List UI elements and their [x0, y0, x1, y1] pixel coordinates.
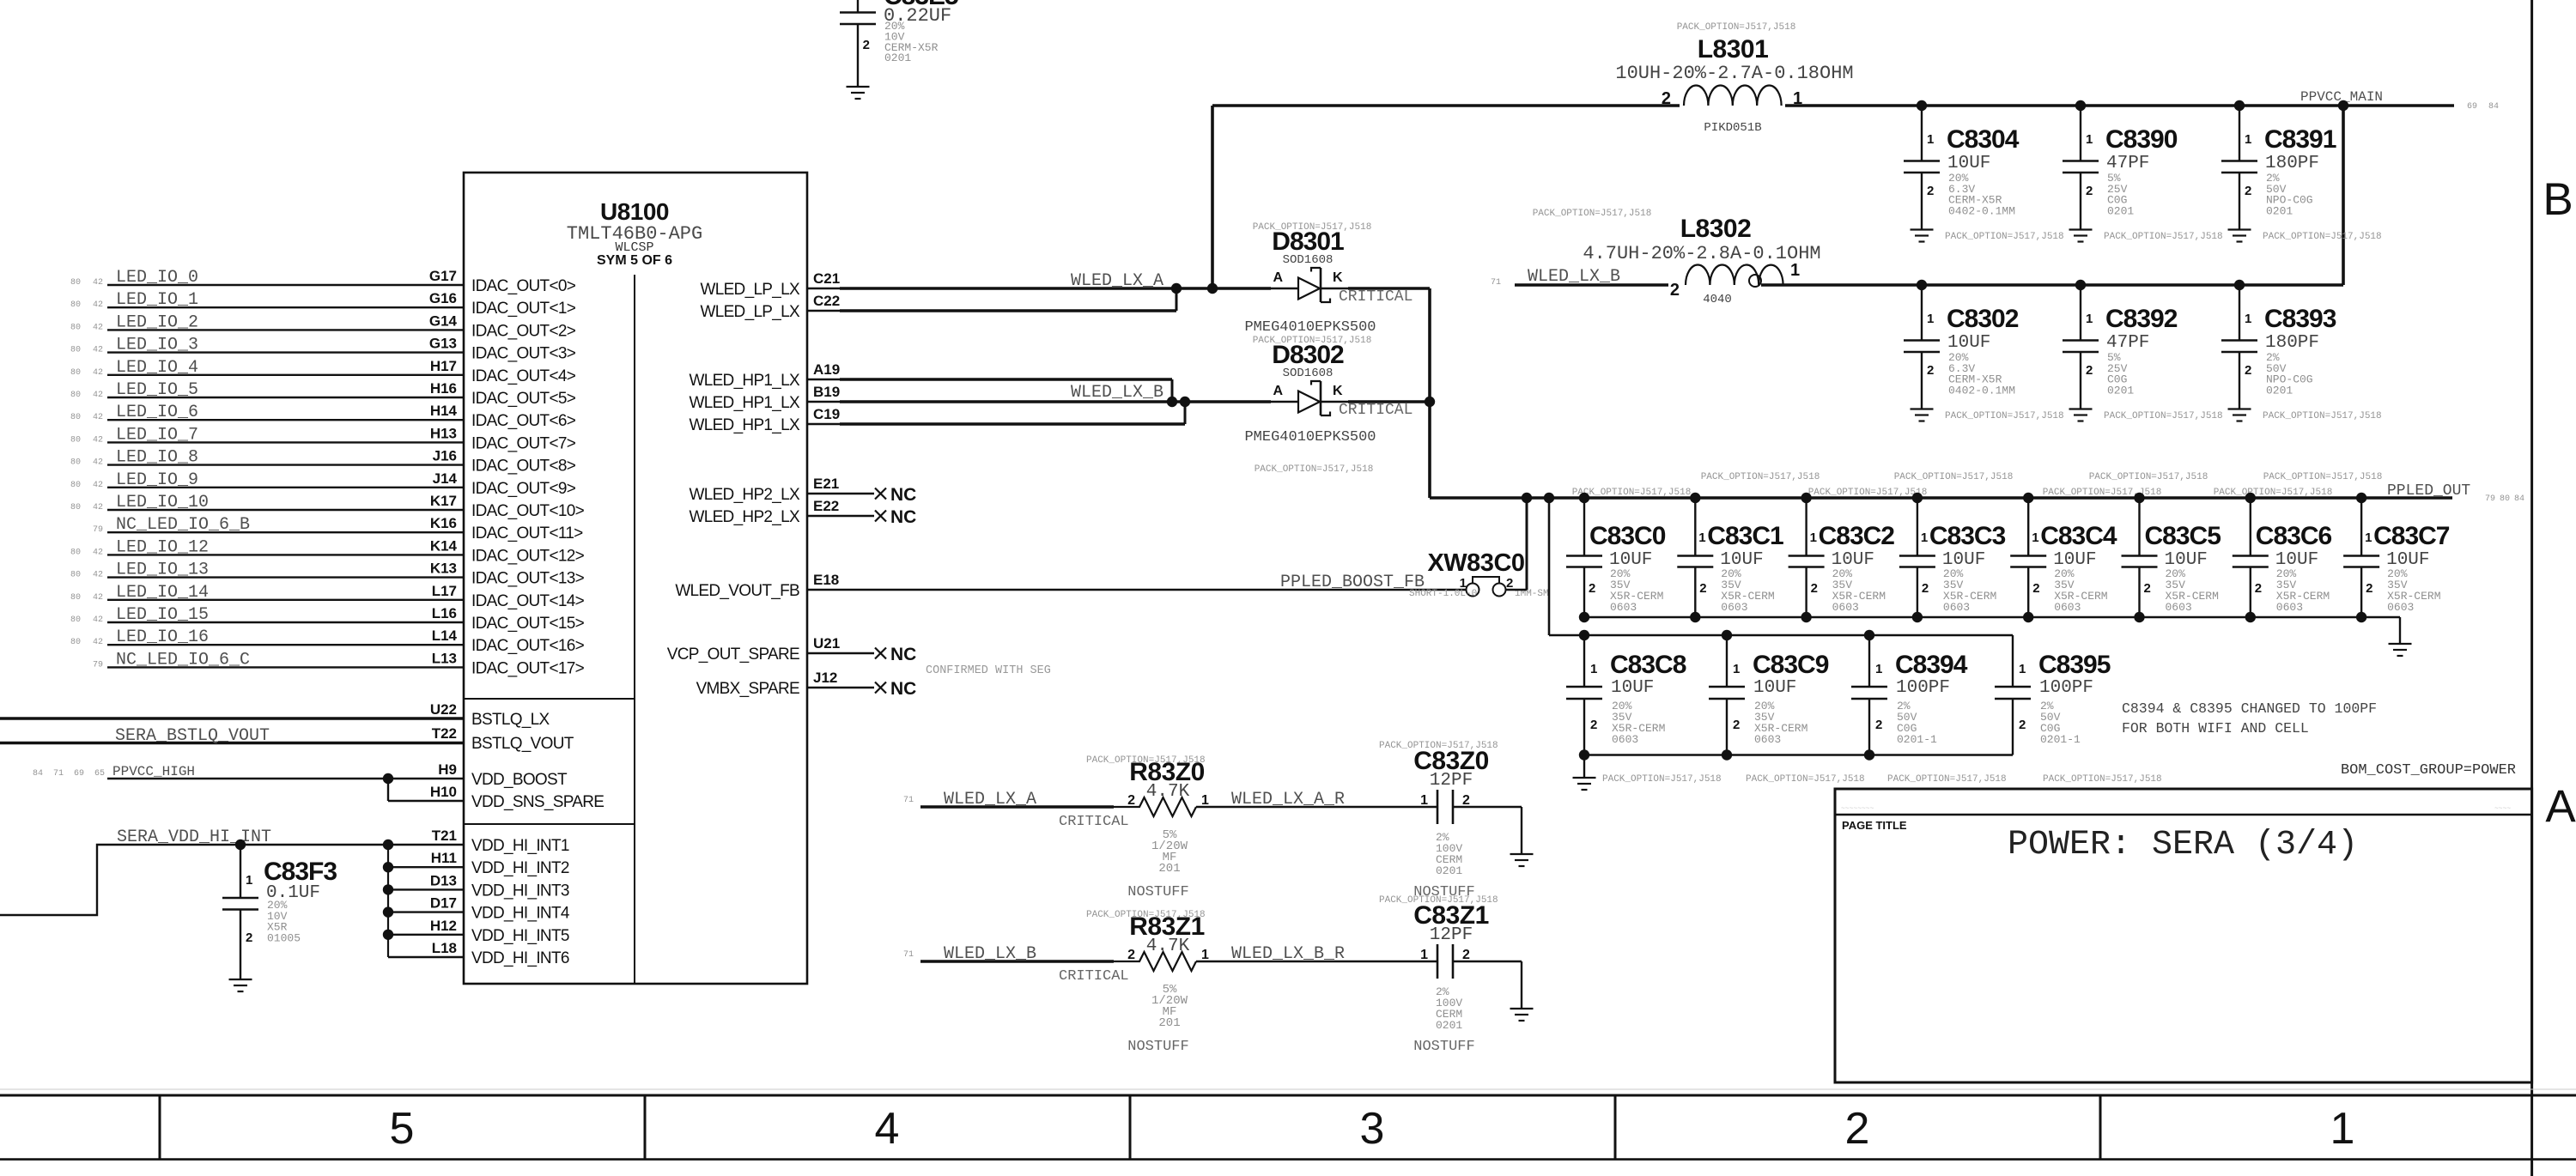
svg-text:C83C5: C83C5 [2145, 522, 2221, 550]
svg-text:IDAC_OUT<3>: IDAC_OUT<3> [471, 345, 576, 363]
svg-text:IDAC_OUT<6>: IDAC_OUT<6> [471, 412, 576, 430]
svg-text:LED_IO_5: LED_IO_5 [116, 380, 198, 400]
svg-text:0603: 0603 [1610, 601, 1637, 614]
svg-text:A: A [1273, 270, 1283, 285]
svg-text:NC: NC [890, 507, 916, 527]
svg-text:J12: J12 [813, 670, 837, 686]
svg-text:PACK_OPTION=J517,J518: PACK_OPTION=J517,J518 [1945, 411, 2064, 421]
svg-text:U22: U22 [430, 701, 457, 718]
svg-text:LED_IO_16: LED_IO_16 [116, 627, 209, 647]
svg-text:1: 1 [1201, 948, 1209, 962]
svg-text:IDAC_OUT<7>: IDAC_OUT<7> [471, 434, 576, 452]
svg-text:SOD1608: SOD1608 [1283, 367, 1334, 380]
svg-text:LED_IO_9: LED_IO_9 [116, 470, 198, 490]
svg-text:79: 79 [93, 525, 103, 535]
svg-text:PACK_OPTION=J517,J518: PACK_OPTION=J517,J518 [1255, 464, 1374, 475]
svg-text:80: 80 [70, 503, 81, 512]
svg-text:80: 80 [70, 481, 81, 490]
svg-text:2: 2 [1927, 184, 1934, 198]
svg-text:G14: G14 [429, 312, 458, 329]
svg-text:PACK_OPTION=J517,J518: PACK_OPTION=J517,J518 [2263, 472, 2383, 482]
svg-text:LED_IO_4: LED_IO_4 [116, 358, 198, 378]
svg-text:NC: NC [890, 645, 916, 664]
svg-text:2: 2 [1590, 718, 1597, 732]
svg-text:PACK_OPTION=J517,J518: PACK_OPTION=J517,J518 [1746, 774, 1865, 785]
svg-text:0201: 0201 [884, 52, 911, 64]
svg-text:CRITICAL: CRITICAL [1339, 402, 1413, 419]
svg-text:WLED_LX_A_R: WLED_LX_A_R [1231, 790, 1345, 809]
svg-text:2: 2 [246, 930, 252, 945]
svg-text:C8394: C8394 [1895, 651, 1968, 679]
svg-text:42: 42 [93, 413, 103, 422]
svg-text:BSTLQ_LX: BSTLQ_LX [471, 711, 550, 729]
svg-text:12PF: 12PF [1430, 771, 1473, 791]
svg-text:POWER: SERA (3/4): POWER: SERA (3/4) [2008, 826, 2358, 864]
svg-text:WLED_LX_B_R: WLED_LX_B_R [1231, 944, 1345, 964]
svg-text:10UH-20%-2.7A-0.18OHM: 10UH-20%-2.7A-0.18OHM [1615, 63, 1853, 84]
svg-text:0201-1: 0201-1 [1897, 733, 1937, 746]
svg-text:IDAC_OUT<13>: IDAC_OUT<13> [471, 570, 585, 588]
svg-text:IDAC_OUT<0>: IDAC_OUT<0> [471, 277, 576, 295]
svg-text:0603: 0603 [2166, 601, 2192, 614]
svg-text:U8100: U8100 [600, 198, 669, 225]
svg-text:C8394 & C8395 CHANGED TO 100PF: C8394 & C8395 CHANGED TO 100PF [2122, 700, 2377, 717]
svg-text:E22: E22 [813, 498, 839, 514]
svg-text:PACK_OPTION=J517,J518: PACK_OPTION=J517,J518 [2089, 472, 2208, 482]
svg-text:G17: G17 [429, 268, 457, 284]
svg-text:1: 1 [1733, 662, 1740, 676]
svg-text:VDD_SNS_SPARE: VDD_SNS_SPARE [471, 793, 604, 811]
svg-text:D13: D13 [430, 872, 457, 888]
svg-text:1: 1 [1698, 530, 1705, 545]
svg-text:42: 42 [93, 481, 103, 490]
svg-text:C8392: C8392 [2105, 305, 2178, 333]
svg-text:LED_IO_12: LED_IO_12 [116, 537, 209, 557]
svg-text:10UF: 10UF [1753, 678, 1796, 698]
svg-text:80: 80 [2500, 494, 2510, 504]
svg-text:2: 2 [2144, 581, 2151, 596]
svg-text:42: 42 [93, 323, 103, 332]
svg-text:0603: 0603 [2387, 601, 2414, 614]
svg-text:H13: H13 [430, 425, 457, 441]
svg-text:0201: 0201 [2266, 204, 2293, 217]
svg-text:H10: H10 [430, 784, 457, 800]
svg-text:L8302: L8302 [1680, 215, 1752, 243]
svg-text:VDD_HI_INT3: VDD_HI_INT3 [471, 882, 569, 900]
svg-text:180PF: 180PF [2265, 333, 2319, 353]
svg-text:80: 80 [70, 638, 81, 647]
svg-text:IDAC_OUT<17>: IDAC_OUT<17> [471, 659, 585, 677]
svg-text:2: 2 [1875, 718, 1882, 732]
svg-text:2: 2 [2086, 184, 2093, 198]
svg-text:LED_IO_14: LED_IO_14 [116, 583, 209, 603]
svg-text:0603: 0603 [1754, 733, 1781, 746]
svg-text:WLED_LX_B: WLED_LX_B [944, 944, 1036, 964]
svg-text:K14: K14 [430, 537, 458, 554]
svg-text:LED_IO_6: LED_IO_6 [116, 403, 198, 422]
svg-text:IDAC_OUT<11>: IDAC_OUT<11> [471, 524, 583, 543]
svg-text:H11: H11 [431, 850, 457, 866]
svg-text:79: 79 [2485, 494, 2495, 504]
svg-text:C19: C19 [813, 406, 840, 422]
svg-text:CONFIRMED WITH SEG: CONFIRMED WITH SEG [926, 664, 1051, 677]
svg-text:T21: T21 [432, 827, 457, 844]
svg-text:PACK_OPTION=J517,J518: PACK_OPTION=J517,J518 [2104, 232, 2223, 242]
svg-text:1: 1 [1790, 261, 1800, 280]
svg-text:VDD_HI_INT1: VDD_HI_INT1 [471, 837, 569, 855]
svg-text:PACK_OPTION=J517,J518: PACK_OPTION=J517,J518 [1894, 472, 2014, 482]
svg-text:LED_IO_7: LED_IO_7 [116, 425, 198, 445]
svg-text:42: 42 [93, 503, 103, 512]
svg-text:0402-0.1MM: 0402-0.1MM [1948, 384, 2015, 397]
svg-text:71: 71 [53, 769, 64, 779]
svg-text:C8393: C8393 [2264, 305, 2336, 333]
svg-text:47PF: 47PF [2106, 333, 2149, 353]
svg-text:PPLED_BOOST_FB: PPLED_BOOST_FB [1280, 573, 1425, 592]
svg-text:80: 80 [70, 593, 81, 603]
svg-text:K: K [1333, 270, 1343, 285]
svg-text:U21: U21 [813, 635, 840, 652]
svg-text:LED_IO_2: LED_IO_2 [116, 312, 198, 332]
svg-text:WLED_HP1_LX: WLED_HP1_LX [689, 416, 800, 434]
svg-text:42: 42 [93, 435, 103, 445]
svg-text:IDAC_OUT<16>: IDAC_OUT<16> [471, 637, 585, 655]
svg-text:1: 1 [1927, 312, 1934, 326]
svg-text:PPVCC_HIGH: PPVCC_HIGH [112, 764, 195, 779]
svg-text:WLED_LX_B: WLED_LX_B [1071, 383, 1163, 403]
svg-text:2: 2 [1699, 581, 1706, 596]
svg-text:2: 2 [1127, 793, 1135, 808]
svg-text:5: 5 [390, 1104, 415, 1154]
svg-text:E21: E21 [813, 476, 839, 492]
svg-text:L13: L13 [432, 650, 457, 666]
svg-text:T22: T22 [432, 725, 457, 742]
svg-text:PACK_OPTION=J517,J518: PACK_OPTION=J517,J518 [1677, 22, 1796, 33]
svg-text:1: 1 [2330, 1104, 2355, 1154]
svg-text:2: 2 [863, 38, 870, 52]
svg-text:L16: L16 [432, 605, 457, 621]
svg-text:71: 71 [1491, 278, 1501, 288]
svg-text:WLED_HP1_LX: WLED_HP1_LX [689, 372, 800, 390]
svg-text:80: 80 [70, 368, 81, 378]
svg-text:C8395: C8395 [2038, 651, 2111, 679]
svg-text:D8302: D8302 [1272, 341, 1344, 369]
svg-text:WLED_HP2_LX: WLED_HP2_LX [689, 486, 800, 504]
svg-text:42: 42 [93, 368, 103, 378]
svg-text:C21: C21 [813, 270, 840, 287]
svg-text:84: 84 [2488, 102, 2499, 112]
svg-text:0603: 0603 [2054, 601, 2081, 614]
svg-text:G13: G13 [429, 336, 457, 352]
svg-text:0402-0.1MM: 0402-0.1MM [1948, 204, 2015, 217]
svg-text:K17: K17 [430, 493, 457, 509]
svg-text:WLED_HP2_LX: WLED_HP2_LX [689, 508, 800, 526]
svg-text:79: 79 [93, 660, 103, 670]
svg-text:~~~~~~~~: ~~~~~~~~ [1841, 805, 1874, 813]
svg-text:100PF: 100PF [2039, 678, 2093, 698]
svg-text:C8390: C8390 [2105, 125, 2178, 154]
svg-text:PIKD051B: PIKD051B [1704, 121, 1761, 135]
svg-text:C83F3: C83F3 [264, 858, 337, 886]
svg-text:2: 2 [1506, 576, 1513, 591]
svg-text:4.7K: 4.7K [1146, 937, 1190, 956]
svg-text:C83C4: C83C4 [2040, 522, 2117, 550]
svg-text:PACK_OPTION=J517,J518: PACK_OPTION=J517,J518 [1533, 209, 1652, 219]
svg-text:PMEG4010EPKS500: PMEG4010EPKS500 [1244, 319, 1376, 336]
svg-text:C22: C22 [813, 293, 840, 309]
svg-text:47PF: 47PF [2106, 154, 2149, 173]
svg-text:B: B [2543, 174, 2573, 225]
svg-text:10UF: 10UF [1611, 678, 1654, 698]
svg-text:C83C2: C83C2 [1819, 522, 1895, 550]
svg-text:LED_IO_3: LED_IO_3 [116, 336, 198, 355]
svg-text:2: 2 [1462, 793, 1470, 808]
svg-text:H9: H9 [438, 761, 457, 778]
svg-text:PACK_OPTION=J517,J518: PACK_OPTION=J517,J518 [2214, 488, 2333, 498]
svg-text:0201: 0201 [2266, 384, 2293, 397]
svg-text:1: 1 [246, 873, 252, 888]
svg-text:E18: E18 [813, 572, 839, 588]
svg-text:B19: B19 [813, 384, 840, 400]
svg-text:SOD1608: SOD1608 [1283, 253, 1334, 267]
svg-text:J14: J14 [433, 470, 458, 487]
svg-text:80: 80 [70, 435, 81, 445]
svg-text:C83C7: C83C7 [2373, 522, 2450, 550]
svg-text:PACK_OPTION=J517,J518: PACK_OPTION=J517,J518 [2043, 774, 2162, 785]
svg-text:NOSTUFF: NOSTUFF [1127, 884, 1188, 900]
svg-text:WLED_LP_LX: WLED_LP_LX [700, 303, 800, 321]
svg-text:2: 2 [2019, 718, 2026, 732]
svg-text:0201: 0201 [1436, 864, 1462, 877]
svg-text:IDAC_OUT<8>: IDAC_OUT<8> [471, 458, 576, 476]
svg-text:2: 2 [2032, 581, 2039, 596]
svg-text:J16: J16 [433, 448, 457, 464]
svg-text:0603: 0603 [1943, 601, 1970, 614]
svg-text:80: 80 [70, 571, 81, 580]
svg-text:0603: 0603 [1721, 601, 1747, 614]
svg-text:C83C0: C83C0 [1589, 522, 1666, 550]
svg-text:2: 2 [2366, 581, 2372, 596]
svg-text:SHORT-1.0L-0: SHORT-1.0L-0 [1409, 589, 1477, 599]
svg-text:80: 80 [70, 458, 81, 468]
svg-text:L17: L17 [432, 583, 457, 599]
svg-text:IDAC_OUT<5>: IDAC_OUT<5> [471, 390, 576, 408]
svg-text:2: 2 [1670, 281, 1680, 300]
svg-text:0201: 0201 [1436, 1019, 1462, 1032]
svg-text:LED_IO_15: LED_IO_15 [116, 605, 209, 625]
svg-text:1: 1 [1420, 793, 1428, 808]
svg-text:IDAC_OUT<4>: IDAC_OUT<4> [471, 367, 576, 385]
svg-text:71: 71 [903, 950, 914, 960]
svg-text:1: 1 [2019, 662, 2026, 676]
svg-text:1: 1 [1793, 89, 1802, 108]
svg-text:VMBX_SPARE: VMBX_SPARE [696, 680, 799, 698]
svg-text:IDAC_OUT<14>: IDAC_OUT<14> [471, 592, 585, 610]
svg-text:~~~~: ~~~~ [2494, 805, 2511, 813]
svg-text:PACK_OPTION=J517,J518: PACK_OPTION=J517,J518 [1701, 472, 1820, 482]
svg-text:SERA_VDD_HI_INT: SERA_VDD_HI_INT [117, 827, 271, 847]
svg-text:80: 80 [70, 391, 81, 400]
svg-text:CRITICAL: CRITICAL [1339, 288, 1413, 306]
svg-text:2: 2 [1462, 948, 1470, 962]
svg-text:2: 2 [2245, 363, 2251, 378]
svg-text:3: 3 [1360, 1104, 1385, 1154]
svg-text:42: 42 [93, 458, 103, 468]
svg-text:10UF: 10UF [1947, 333, 1990, 353]
svg-text:2: 2 [1733, 718, 1740, 732]
svg-text:1: 1 [2086, 132, 2093, 147]
svg-text:2: 2 [1922, 581, 1929, 596]
svg-text:100PF: 100PF [1896, 678, 1950, 698]
svg-text:4.7K: 4.7K [1146, 782, 1190, 802]
svg-text:LED_IO_10: LED_IO_10 [116, 493, 209, 512]
svg-text:42: 42 [93, 346, 103, 355]
svg-text:80: 80 [70, 300, 81, 310]
svg-text:IDAC_OUT<12>: IDAC_OUT<12> [471, 547, 585, 565]
svg-text:NC_LED_IO_6_B: NC_LED_IO_6_B [116, 515, 250, 535]
svg-text:L18: L18 [432, 940, 457, 956]
svg-text:2: 2 [2086, 363, 2093, 378]
svg-text:1: 1 [1810, 530, 1817, 545]
svg-text:WLED_LX_A: WLED_LX_A [944, 790, 1036, 809]
svg-text:42: 42 [93, 593, 103, 603]
svg-text:LED_IO_13: LED_IO_13 [116, 561, 209, 580]
svg-text:80: 80 [70, 548, 81, 557]
svg-text:42: 42 [93, 278, 103, 288]
svg-text:IDAC_OUT<15>: IDAC_OUT<15> [471, 615, 585, 633]
svg-text:65: 65 [94, 769, 105, 779]
svg-text:SERA_BSTLQ_VOUT: SERA_BSTLQ_VOUT [115, 726, 270, 746]
svg-text:K: K [1333, 384, 1343, 398]
svg-text:VDD_HI_INT2: VDD_HI_INT2 [471, 859, 569, 877]
svg-text:2: 2 [1927, 363, 1934, 378]
svg-text:2: 2 [2245, 184, 2251, 198]
svg-text:0201: 0201 [2107, 204, 2134, 217]
svg-text:IDAC_OUT<1>: IDAC_OUT<1> [471, 300, 576, 318]
svg-text:H14: H14 [430, 403, 458, 419]
svg-text:12PF: 12PF [1430, 925, 1473, 945]
svg-text:L14: L14 [432, 627, 458, 644]
svg-text:WLED_LP_LX: WLED_LP_LX [700, 281, 800, 299]
svg-text:PACK_OPTION=J517,J518: PACK_OPTION=J517,J518 [1945, 232, 2064, 242]
svg-text:C83C3: C83C3 [1929, 522, 2006, 550]
svg-text:LED_IO_1: LED_IO_1 [116, 290, 198, 310]
svg-text:80: 80 [70, 615, 81, 625]
svg-text:0603: 0603 [1832, 601, 1859, 614]
svg-text:PACK_OPTION=J517,J518: PACK_OPTION=J517,J518 [2263, 232, 2382, 242]
svg-text:WLED_LX_A: WLED_LX_A [1071, 271, 1163, 291]
svg-text:L8301: L8301 [1698, 35, 1769, 64]
svg-text:84: 84 [33, 769, 43, 779]
svg-text:D17: D17 [430, 895, 457, 912]
svg-text:C83C8: C83C8 [1610, 651, 1686, 679]
svg-text:1: 1 [1590, 662, 1597, 676]
svg-text:42: 42 [93, 548, 103, 557]
svg-text:42: 42 [93, 571, 103, 580]
svg-text:BOM_COST_GROUP=POWER: BOM_COST_GROUP=POWER [2341, 762, 2516, 779]
svg-text:0201-1: 0201-1 [2040, 733, 2081, 746]
svg-text:A: A [1273, 384, 1283, 398]
svg-text:D8301: D8301 [1272, 227, 1344, 256]
svg-text:84: 84 [2514, 494, 2524, 504]
svg-text:4040: 4040 [1703, 293, 1732, 306]
svg-text:PPLED_OUT: PPLED_OUT [2387, 482, 2470, 500]
svg-text:1: 1 [1420, 948, 1428, 962]
svg-text:H16: H16 [430, 380, 457, 397]
svg-text:80: 80 [70, 346, 81, 355]
svg-text:SYM 5 OF 6: SYM 5 OF 6 [597, 253, 672, 268]
svg-text:2: 2 [1811, 581, 1818, 596]
svg-text:4.7UH-20%-2.8A-0.1OHM: 4.7UH-20%-2.8A-0.1OHM [1583, 243, 1820, 264]
svg-text:4: 4 [875, 1104, 900, 1154]
svg-text:VDD_HI_INT4: VDD_HI_INT4 [471, 905, 570, 923]
svg-text:PMEG4010EPKS500: PMEG4010EPKS500 [1244, 429, 1376, 446]
svg-text:PACK_OPTION=J517,J518: PACK_OPTION=J517,J518 [1887, 774, 2007, 785]
svg-text:1: 1 [2032, 530, 2038, 545]
svg-text:PACK_OPTION=J517,J518: PACK_OPTION=J517,J518 [1602, 774, 1722, 785]
svg-text:G16: G16 [429, 290, 457, 306]
svg-text:69: 69 [2467, 102, 2477, 112]
svg-text:42: 42 [93, 615, 103, 625]
svg-text:C83C6: C83C6 [2256, 522, 2332, 550]
svg-text:1: 1 [1875, 662, 1882, 676]
svg-text:1: 1 [2245, 312, 2251, 326]
svg-text:C83C1: C83C1 [1707, 522, 1783, 550]
svg-text:CRITICAL: CRITICAL [1059, 968, 1129, 985]
svg-text:A: A [2545, 781, 2576, 832]
svg-text:1: 1 [2245, 132, 2251, 147]
svg-text:0201: 0201 [2107, 384, 2134, 397]
svg-text:VDD_HI_INT5: VDD_HI_INT5 [471, 927, 569, 945]
svg-text:IDAC_OUT<2>: IDAC_OUT<2> [471, 322, 576, 340]
svg-text:H12: H12 [430, 918, 457, 934]
svg-text:180PF: 180PF [2265, 154, 2319, 173]
svg-text:201: 201 [1158, 862, 1180, 876]
svg-text:C8302: C8302 [1947, 305, 2019, 333]
svg-text:42: 42 [93, 300, 103, 310]
svg-text:0603: 0603 [2276, 601, 2303, 614]
svg-text:NC: NC [890, 679, 916, 699]
svg-text:1: 1 [2365, 530, 2372, 545]
svg-text:NC_LED_IO_6_C: NC_LED_IO_6_C [116, 650, 250, 670]
svg-text:VCP_OUT_SPARE: VCP_OUT_SPARE [667, 646, 799, 664]
svg-text:K16: K16 [430, 515, 457, 531]
svg-text:1: 1 [1927, 132, 1934, 147]
svg-text:WLED_VOUT_FB: WLED_VOUT_FB [675, 582, 799, 600]
svg-text:80: 80 [70, 413, 81, 422]
svg-text:0603: 0603 [1612, 733, 1638, 746]
svg-text:C83C9: C83C9 [1753, 651, 1829, 679]
svg-text:NOSTUFF: NOSTUFF [1413, 1039, 1474, 1055]
svg-text:42: 42 [93, 391, 103, 400]
svg-text:NOSTUFF: NOSTUFF [1127, 1039, 1188, 1055]
svg-text:LED_IO_0: LED_IO_0 [116, 268, 198, 288]
svg-text:A19: A19 [813, 361, 840, 378]
svg-text:1: 1 [2086, 312, 2093, 326]
svg-text:PACK_OPTION=J517,J518: PACK_OPTION=J517,J518 [1572, 488, 1692, 498]
svg-text:BSTLQ_VOUT: BSTLQ_VOUT [471, 735, 574, 753]
svg-text:69: 69 [74, 769, 84, 779]
svg-text:WLED_HP1_LX: WLED_HP1_LX [689, 394, 800, 412]
svg-text:201: 201 [1158, 1016, 1180, 1030]
svg-text:80: 80 [70, 323, 81, 332]
svg-text:80: 80 [70, 278, 81, 288]
svg-text:XW83C0: XW83C0 [1427, 549, 1524, 577]
svg-text:2: 2 [1845, 1104, 1870, 1154]
svg-text:2: 2 [2255, 581, 2262, 596]
svg-text:PACK_OPTION=J517,J518: PACK_OPTION=J517,J518 [2104, 411, 2223, 421]
svg-text:IDAC_OUT<10>: IDAC_OUT<10> [471, 502, 585, 520]
